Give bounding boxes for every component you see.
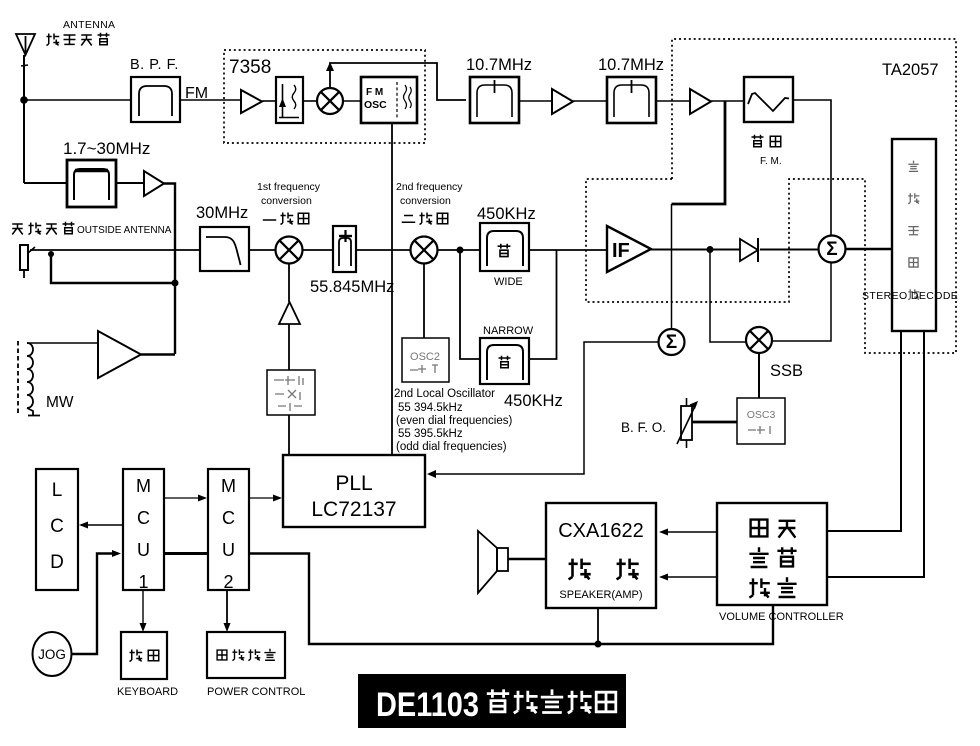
- svg-text:NARROW: NARROW: [483, 325, 534, 337]
- svg-text:OSC2: OSC2: [410, 351, 440, 363]
- IF filter WIDE 450kHz: [480, 223, 529, 271]
- wire SSB mixer to OSC3: [758, 353, 760, 398]
- ceramic filter FL1 10.7MHz: [470, 77, 519, 123]
- wire trimmer to OSC3: [692, 421, 737, 424]
- svg-text:B. P. F.: B. P. F.: [130, 57, 179, 73]
- svg-text:55 395.5kHz: 55 395.5kHz: [398, 428, 463, 440]
- wire FM OSC to mixer: [343, 100, 361, 102]
- mixer M4 SSB detector: [746, 327, 772, 353]
- svg-text:SPEAKER(AMP): SPEAKER(AMP): [559, 589, 642, 601]
- wire OSC1 to PLL: [288, 415, 290, 455]
- stereo decoder box: [892, 139, 936, 331]
- wire antenna down: [20, 55, 28, 183]
- bus MCU2 to audio thick: [249, 554, 773, 648]
- svg-text:STEREO DECODE: STEREO DECODE: [862, 290, 958, 302]
- svg-text:TA2057: TA2057: [882, 61, 939, 79]
- wire CXA bottom to bus: [597, 608, 599, 644]
- bandpass filter 1.7-30MHz: [67, 160, 116, 207]
- wire speaker to CXA1622: [508, 558, 546, 560]
- oscillator OSC1: [267, 370, 315, 415]
- oscillator FM OSC: [361, 77, 417, 123]
- label 1st frequency conversion: [257, 181, 321, 207]
- svg-text:U: U: [137, 540, 150, 560]
- svg-text:F. M.: F. M.: [760, 156, 782, 167]
- svg-text:conversion: conversion: [400, 195, 451, 207]
- svg-text:1: 1: [138, 572, 148, 592]
- svg-text:JOG: JOG: [38, 647, 66, 662]
- svg-text:D: D: [50, 552, 64, 573]
- wire FL1 to A2: [519, 100, 552, 102]
- FM discriminator: [744, 77, 793, 122]
- wire antenna bus to filter: [24, 182, 67, 184]
- IF filter NARROW 450kHz: [480, 338, 529, 384]
- svg-text:450KHz: 450KHz: [477, 205, 536, 223]
- connector J1 outside antenna jack: [20, 245, 35, 278]
- svg-text:Σ: Σ: [826, 239, 837, 260]
- wire crystal to mixer M3: [356, 249, 410, 251]
- keypad jian-pan CJK: [121, 632, 167, 679]
- wire MW coil to A5: [27, 342, 98, 344]
- diode D1 AM detector: [740, 238, 758, 262]
- wire MCU2 to PLL: [249, 495, 282, 502]
- wire diode to sigma2: [760, 249, 818, 251]
- wire FL2 to A3: [656, 100, 690, 102]
- wire M2 to crystal filter: [303, 249, 334, 251]
- wire FM OSC to PLL: [391, 123, 393, 455]
- svg-text:55 394.5kHz: 55 394.5kHz: [398, 402, 463, 414]
- amplifier A4 SW: [144, 171, 164, 196]
- svg-text:U: U: [222, 540, 235, 560]
- svg-text:PLL: PLL: [335, 472, 372, 495]
- bus MCU1 MCU2 thick: [164, 552, 208, 555]
- amplifier A2: [552, 89, 573, 114]
- wire discriminator to sigma2: [793, 100, 831, 235]
- svg-text:C: C: [222, 508, 235, 528]
- svg-text:conversion: conversion: [261, 195, 312, 207]
- wire filter to A4: [116, 182, 144, 184]
- oscillator OSC3 BFO: [737, 398, 785, 444]
- amplifier IF: [607, 226, 651, 272]
- label 2nd Local Oscillator: [394, 388, 513, 453]
- wire MCU1 to LCD: [79, 522, 123, 529]
- label CJK la-gan-tian-xian: [47, 33, 110, 46]
- lowpass filter 30MHz: [200, 227, 249, 271]
- oscillator OSC2: [402, 338, 449, 382]
- svg-text:10.7MHz: 10.7MHz: [466, 56, 532, 74]
- svg-text:Σ: Σ: [666, 332, 677, 353]
- mixer M1 FM 1st: [317, 88, 343, 114]
- variable capacitor BFO trimmer: [677, 398, 698, 448]
- summer SIGMA1: [659, 329, 685, 355]
- MCU2: [208, 469, 249, 592]
- amplifier A6 pointing up: [279, 302, 300, 324]
- antenna ANT1 telescopic: [16, 34, 35, 55]
- antenna MW ferrite rod: [18, 341, 40, 416]
- wire MCU1 to MCU2: [164, 495, 207, 502]
- svg-text:MW: MW: [46, 394, 74, 411]
- wire jack to 30MHz filter: [30, 250, 200, 257]
- wire M3 to OSC2: [423, 264, 425, 339]
- svg-text:B. F. O.: B. F. O.: [621, 420, 666, 435]
- display LCD: [36, 469, 78, 590]
- svg-text:POWER CONTROL: POWER CONTROL: [207, 686, 305, 698]
- svg-text:(even dial frequencies): (even dial frequencies): [396, 415, 513, 427]
- label jian-pin CJK: [752, 135, 781, 147]
- svg-text:C: C: [137, 508, 150, 528]
- svg-text:SSB: SSB: [770, 362, 803, 380]
- jog dial JOG: [33, 632, 72, 676]
- wire sigma1 to PLL: [427, 342, 659, 478]
- svg-text:LC72137: LC72137: [311, 498, 396, 521]
- label yi-hun-pin CJK: [263, 213, 309, 225]
- svg-text:7358: 7358: [229, 57, 271, 78]
- wire 30MHz to mixer M2: [249, 249, 276, 251]
- svg-text:1st frequency: 1st frequency: [257, 181, 321, 193]
- wire antenna to BPF: [24, 99, 131, 101]
- wire M3 to WIDE filter: [438, 247, 481, 254]
- wire A5 to SW bus: [141, 353, 175, 355]
- svg-text:OUTSIDE ANTENNA: OUTSIDE ANTENNA: [77, 225, 172, 236]
- IC TA2057 boundary dotted: [586, 39, 956, 353]
- summer SIGMA2: [819, 236, 846, 263]
- svg-text:55.845MHz: 55.845MHz: [310, 278, 394, 296]
- wire A1 to tuned circuit: [262, 100, 276, 102]
- wire narrow branch down: [460, 250, 480, 359]
- wire sigma2 to stereo decoder: [846, 248, 893, 251]
- MCU1: [123, 469, 164, 592]
- wire volume to CXA bottom: [659, 574, 717, 581]
- wire narrow branch up: [529, 250, 557, 359]
- svg-text:VOLUME CONTROLLER: VOLUME CONTROLLER: [719, 611, 844, 623]
- audio amplifier CXA1622: [546, 503, 656, 608]
- wire SSB mixer to sigma2: [772, 263, 831, 342]
- svg-text:KEYBOARD: KEYBOARD: [117, 686, 178, 698]
- svg-text:WIDE: WIDE: [494, 276, 523, 288]
- label 2nd frequency conversion: [396, 181, 463, 207]
- svg-text:CXA1622: CXA1622: [558, 520, 644, 542]
- svg-text:450KHz: 450KHz: [504, 392, 563, 410]
- wire IF tap to SSB mixer: [710, 250, 747, 343]
- svg-text:2nd Local Oscillator: 2nd Local Oscillator: [394, 388, 495, 400]
- PLL LC72137: [283, 455, 425, 527]
- volume controller dian-zi-yin-liang-kong-zhi CJK: [717, 503, 827, 605]
- wire tap down to sigma1: [671, 204, 673, 329]
- wire stereo out R: [827, 331, 924, 577]
- svg-text:M: M: [221, 476, 236, 496]
- wire FM audio tap thick: [672, 101, 726, 204]
- wire IF out to diode: [651, 246, 740, 253]
- IC 7358 boundary dotted: [224, 50, 425, 143]
- wire BPF to 7358: [180, 99, 241, 101]
- wire amp to OSC1: [288, 324, 290, 370]
- svg-text:DE1103: DE1103: [376, 686, 479, 724]
- label wai-jie-tian-xian CJK: [12, 222, 74, 235]
- bandpass filter BPF: [131, 77, 180, 122]
- svg-text:ANTENNA: ANTENNA: [63, 19, 115, 31]
- amplifier A3: [690, 89, 711, 114]
- mixer M2 1st conversion: [276, 237, 303, 264]
- title bar DE1103: [358, 674, 626, 728]
- wire tuned to mixer: [303, 100, 317, 102]
- power control dian-yuan-kong-zhi CJK: [207, 632, 285, 678]
- svg-text:C: C: [50, 516, 64, 537]
- svg-text:L: L: [52, 480, 63, 501]
- wire mixer IF output to 10.7MHz: [326, 62, 466, 100]
- wire A2 to FL2: [573, 100, 607, 102]
- wire MCU2 to power control: [224, 590, 231, 632]
- svg-text:(odd dial frequencies): (odd dial frequencies): [396, 441, 507, 453]
- label er-hun-pin CJK: [402, 213, 448, 225]
- wire stereo out L: [827, 331, 901, 531]
- svg-text:IF: IF: [612, 240, 630, 262]
- wire A3 to discriminator: [711, 100, 744, 102]
- wire JOG to MCU1: [72, 550, 122, 654]
- amplifier A5 MW: [98, 331, 141, 378]
- svg-text:OSC3: OSC3: [747, 409, 776, 421]
- tuned circuit RF tracking: [276, 77, 303, 123]
- mixer M3 2nd conversion: [411, 237, 438, 264]
- wire MCU1 to keyboard: [140, 590, 147, 632]
- svg-text:M: M: [136, 476, 151, 496]
- wire volume to CXA top: [659, 529, 717, 536]
- ceramic filter FL2 10.7MHz: [607, 77, 656, 123]
- wire A4 to SW bus: [164, 184, 179, 355]
- wire WIDE to IF amp: [529, 249, 607, 251]
- svg-text:F M: F M: [366, 87, 383, 98]
- svg-text:2nd frequency: 2nd frequency: [396, 181, 463, 193]
- wire jack branch to SW bus: [51, 254, 175, 283]
- svg-text:OSC: OSC: [364, 99, 387, 111]
- svg-text:10.7MHz: 10.7MHz: [598, 56, 664, 74]
- svg-text:2: 2: [223, 572, 233, 592]
- svg-text:30MHz: 30MHz: [196, 204, 248, 222]
- amplifier A1 FM RF: [241, 90, 262, 113]
- wire M2 down to amp: [288, 264, 290, 303]
- svg-text:1.7~30MHz: 1.7~30MHz: [63, 139, 150, 158]
- speaker SP1: [478, 531, 508, 593]
- crystal filter 55.845MHz: [333, 226, 356, 272]
